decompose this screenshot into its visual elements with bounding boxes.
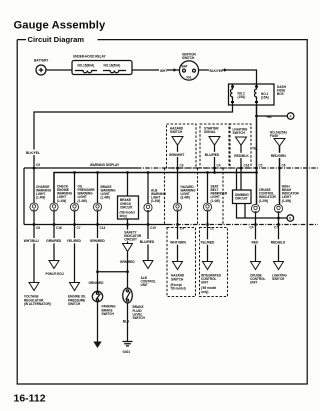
wire check engine lamp to ECU <box>53 211 55 260</box>
node bus tap oil lamp <box>73 171 76 174</box>
svg-text:SWITCH: SWITCH <box>133 316 146 320</box>
svg-text:PGM-FI ECU: PGM-FI ECU <box>46 272 65 276</box>
ignition switch <box>179 53 198 81</box>
node dimming output joint <box>277 217 280 220</box>
ground body <box>93 342 101 349</box>
engine oil pressure switch label <box>68 295 86 306</box>
lighting switch dashed box <box>229 124 251 168</box>
wire label GRN/RED <box>119 259 136 264</box>
svg-text:SWITCH: SWITCH <box>102 312 115 316</box>
svg-text:GRN/RED: GRN/RED <box>46 239 62 243</box>
svg-text:SWITCH: SWITCH <box>171 277 184 281</box>
svg-text:WARNING DISPLAY: WARNING DISPLAY <box>90 163 120 167</box>
wire charge lamp to voltage regulator <box>33 211 35 282</box>
lighting switch label <box>272 274 287 282</box>
svg-text:SIGNAL: SIGNAL <box>204 130 216 134</box>
section divider dashed <box>222 168 224 225</box>
svg-text:SWITCH: SWITCH <box>170 130 183 134</box>
fuse No.2 (15A) <box>231 84 246 105</box>
brake fluid level switch <box>123 288 146 320</box>
wire RED/BLK lighting switch to dimming circuit <box>240 145 242 190</box>
pin mark top edge x=214.5 <box>213 167 215 169</box>
brake check circuit box <box>118 196 139 219</box>
svg-text:BAT: BAT <box>182 65 188 69</box>
wire fuse No.2 to BLK/YEL feed <box>34 105 233 168</box>
pin mark top edge x=256.5 <box>255 167 257 169</box>
wire BLK/YEL to dash fuse box <box>222 70 257 84</box>
connector arrow safety indicator circuit <box>123 244 133 252</box>
svg-text:UNIT: UNIT <box>141 283 148 287</box>
svg-text:C9: C9 <box>36 163 40 167</box>
svg-text:(1.4W): (1.4W) <box>282 199 291 203</box>
svg-text:C3: C3 <box>180 164 184 168</box>
svg-text:IG1: IG1 <box>187 76 192 80</box>
wire brake lamp to parking brake switch <box>97 211 99 291</box>
integrated control unit label <box>201 274 222 294</box>
svg-text:(1.4W): (1.4W) <box>78 199 87 203</box>
svg-text:GRN/RED: GRN/RED <box>90 239 106 243</box>
hazard switch label <box>171 274 186 291</box>
wire label GRN/RED <box>46 238 63 243</box>
svg-text:RED: RED <box>252 241 260 245</box>
integrated control unit lower dashed box <box>200 228 228 297</box>
battery <box>34 59 49 76</box>
svg-text:(1.4W): (1.4W) <box>36 196 45 200</box>
hazard switch dashed box <box>167 124 197 168</box>
wire label RED/BLU <box>270 239 287 244</box>
wire label WHT/BLU <box>23 238 40 243</box>
connector arrow to lighting switch <box>274 262 284 270</box>
connector arrow from starter signal <box>209 137 220 146</box>
svg-text:(1.4W): (1.4W) <box>57 199 66 203</box>
under-hood relay box <box>72 55 132 75</box>
svg-text:Circuit Diagram: Circuit Diagram <box>28 35 85 44</box>
gauge assembly box top edge <box>24 167 137 169</box>
pin mark bottom edge x=207.5 <box>206 223 208 225</box>
oil pressure warning light L3 <box>70 184 94 211</box>
svg-text:BLU/RED: BLU/RED <box>140 240 155 244</box>
connector B <box>287 215 294 222</box>
dash fuse box <box>229 84 287 105</box>
fuse No.1 (15A) <box>255 84 269 105</box>
svg-text:C16: C16 <box>56 226 62 230</box>
svg-text:C16: C16 <box>244 164 250 168</box>
fuse No.15 (80A) <box>75 71 97 73</box>
svg-text:CIRCUIT: CIRCUIT <box>124 238 137 242</box>
svg-text:WHT/GRN: WHT/GRN <box>170 241 186 245</box>
wire WHT to ignition switch <box>167 69 179 71</box>
svg-text:UNDER-HOOD RELAY: UNDER-HOOD RELAY <box>73 55 106 59</box>
ignition bus wire <box>54 173 257 204</box>
node brake fluid branch junction <box>126 270 129 273</box>
wire brake check circuit feed <box>127 173 129 197</box>
node junction YEL tap <box>255 115 258 118</box>
wire fuse No.1 down to YEL node <box>256 105 258 116</box>
svg-text:NO.16(50A): NO.16(50A) <box>104 64 121 68</box>
svg-text:BOX: BOX <box>277 92 285 96</box>
svg-text:C2: C2 <box>259 164 263 168</box>
svg-text:WHT: WHT <box>160 69 167 73</box>
parking brake switch <box>92 291 116 316</box>
svg-text:SWITCH: SWITCH <box>68 302 81 306</box>
wire YEL to connector A <box>257 115 288 117</box>
wire seat belt lamp to integrated control unit <box>207 211 209 261</box>
wire battery to under-hood relay box <box>46 69 72 71</box>
node bus tap brake check circuit <box>126 171 129 174</box>
wire cruise lamp to cruise control unit <box>255 213 257 262</box>
wire oil lamp to oil pressure switch <box>74 211 76 282</box>
svg-text:SWITCH: SWITCH <box>182 56 195 60</box>
wire label YEL/RED <box>200 239 216 244</box>
svg-text:BATTERY: BATTERY <box>34 59 49 63</box>
dimming circuit feed stub <box>236 169 238 191</box>
voltage regulator label <box>24 295 51 306</box>
svg-text:RED/GRN: RED/GRN <box>271 154 287 158</box>
wire brake check to safety indicator circuit <box>127 219 129 244</box>
svg-text:(IN ALTERNATOR): (IN ALTERNATOR) <box>24 302 51 306</box>
svg-text:C6: C6 <box>282 164 286 168</box>
svg-text:(15A): (15A) <box>238 95 246 99</box>
high beam indicator light L9 <box>274 184 299 212</box>
wire label RED <box>251 239 260 244</box>
svg-text:C4: C4 <box>250 226 254 230</box>
wire ignition to BLK/YEL <box>199 69 209 71</box>
wire label GRN/RED <box>89 238 106 243</box>
svg-text:16-112: 16-112 <box>14 393 46 405</box>
pin mark bottom edge x=255.5 <box>254 223 256 225</box>
svg-text:only): only) <box>120 214 127 218</box>
ALB warning light L5 <box>144 188 167 211</box>
wire brake lamp feed <box>97 173 99 204</box>
node bus tap ALB lamp <box>147 171 150 174</box>
connector arrow to cruise control unit <box>251 262 261 270</box>
svg-text:BLK: BLK <box>123 320 130 324</box>
wire charge lamp feed <box>33 167 35 203</box>
connector arrow to hazard switch <box>173 262 183 270</box>
wire label BLK/YEL <box>26 150 43 156</box>
dimming circuit box <box>233 190 252 204</box>
svg-text:C14: C14 <box>100 226 106 230</box>
svg-text:C4: C4 <box>217 164 221 168</box>
wire high beam lamp to lighting switch <box>278 213 280 262</box>
svg-text:G401: G401 <box>123 350 131 354</box>
starter signal dashed box <box>200 124 230 168</box>
ground G401 <box>123 342 133 354</box>
svg-text:only): only) <box>201 290 208 294</box>
svg-text:C7: C7 <box>274 226 278 230</box>
hazard warning light L6 <box>173 185 196 211</box>
ALB control unit label <box>141 276 156 287</box>
svg-text:YEL: YEL <box>266 115 272 119</box>
wire hazard lamp to hazard switch <box>177 211 179 261</box>
cruise control indicator L8 <box>251 188 276 213</box>
svg-text:GRN/WHT: GRN/WHT <box>169 153 185 157</box>
svg-text:YEL/RED: YEL/RED <box>67 239 82 243</box>
svg-text:(1.2W): (1.2W) <box>259 199 268 203</box>
connector arrow to integrated control unit <box>203 262 213 270</box>
pin mark top edge x=241 <box>240 167 242 169</box>
svg-text:GRN/RED: GRN/RED <box>89 281 105 285</box>
wire ALB lamp to ALB control unit <box>147 212 149 261</box>
svg-text:C15: C15 <box>150 226 156 230</box>
wire brake fluid switch to ground G401 <box>127 303 129 342</box>
check engine warning light L2 <box>50 184 73 211</box>
svg-text:Gauge Assembly: Gauge Assembly <box>14 20 106 32</box>
connector arrow to ALB control unit <box>143 261 153 269</box>
connector arrow from No.24 fuse <box>274 139 285 147</box>
svg-text:BLK/YEL: BLK/YEL <box>26 151 40 155</box>
connector arrow from hazard switch <box>172 137 183 146</box>
wire parking brake switch to ground <box>97 302 99 342</box>
svg-text:C8: C8 <box>36 226 40 230</box>
pin mark bottom edge x=127.5 <box>126 223 128 225</box>
svg-text:UNIT: UNIT <box>201 281 208 285</box>
svg-text:SWITCH: SWITCH <box>233 131 246 135</box>
svg-text:C2: C2 <box>210 227 214 231</box>
brake warning light L4 <box>93 185 116 211</box>
node bus joint starter signal <box>213 171 216 174</box>
node bus joint YEL <box>255 171 258 174</box>
svg-text:BLU/RED: BLU/RED <box>205 153 220 157</box>
svg-text:RED/BLK: RED/BLK <box>234 154 249 158</box>
node bus tap brake lamp <box>96 171 99 174</box>
wires dimming circuit output <box>237 204 288 219</box>
svg-text:(1.4W): (1.4W) <box>211 199 220 203</box>
svg-text:(3.4W): (3.4W) <box>181 196 190 200</box>
wire BLU/RED starter signal <box>214 145 216 172</box>
wire junction to brake fluid branch <box>98 271 128 273</box>
svg-text:'89 model): '89 model) <box>171 287 186 291</box>
pin mark bottom edge x=34 <box>33 223 35 225</box>
pin mark bottom edge x=97.5 <box>96 223 98 225</box>
svg-text:CIRCUIT: CIRCUIT <box>120 205 133 209</box>
svg-text:C4: C4 <box>180 227 184 231</box>
hazard switch lower dashed box <box>167 228 196 297</box>
section divider dashed <box>197 168 199 225</box>
connector arrow to voltage regulator <box>29 283 39 291</box>
svg-text:SWITCH: SWITCH <box>272 277 285 281</box>
wire YEL fuse No.1 down to cruise lamp <box>256 116 258 204</box>
pin mark top edge x=177.5 <box>176 167 178 169</box>
svg-text:WHT/BLU: WHT/BLU <box>24 239 40 243</box>
wire GRN/WHT hazard to lamp <box>177 145 179 203</box>
svg-text:FUSE: FUSE <box>270 134 278 138</box>
connector A <box>287 113 294 120</box>
pin mark top edge x=279.5 <box>278 167 280 169</box>
charge warning light L1 <box>30 185 52 211</box>
seat belt reminder light L7 <box>203 184 227 211</box>
wire relay box to WHT <box>132 69 159 71</box>
svg-text:(1.4W): (1.4W) <box>151 199 160 203</box>
wire to brake fluid level switch <box>127 252 129 289</box>
pin mark bottom edge x=74.5 <box>73 223 75 225</box>
safety indicator circuit label <box>124 230 142 242</box>
section divider dashed <box>164 168 166 225</box>
svg-text:C7: C7 <box>77 226 81 230</box>
svg-text:(1.4W): (1.4W) <box>101 196 110 200</box>
node brake circuit junction <box>96 270 99 273</box>
svg-text:NO.15(80A): NO.15(80A) <box>78 64 95 68</box>
gauge assembly box left edge <box>23 168 25 225</box>
wire label WHT/GRN <box>170 239 187 244</box>
wire ALB lamp feed <box>147 173 149 204</box>
fuse No.24 (25A) label <box>270 131 287 139</box>
pin mark top edge x=34 <box>33 167 35 169</box>
svg-text:BLK/YEL: BLK/YEL <box>210 69 223 73</box>
fuse No.16 (50A) <box>103 71 126 73</box>
pin mark bottom edge x=148 <box>147 223 149 225</box>
gauge assembly box bottom edge <box>24 224 168 226</box>
wire seat belt lamp feed <box>207 173 209 204</box>
connector arrow from lighting switch <box>236 137 247 145</box>
svg-text:RED/BLU: RED/BLU <box>271 241 286 245</box>
pin mark bottom edge x=278.5 <box>277 223 279 225</box>
cruise control unit label <box>250 274 265 285</box>
wire label BLU/RED <box>139 239 156 244</box>
circuit diagram border frame <box>17 40 307 384</box>
pin mark bottom edge x=54 <box>53 223 55 225</box>
svg-text:YEL/RED: YEL/RED <box>200 241 215 245</box>
wire label YEL/RED <box>66 238 82 243</box>
svg-text:(15A): (15A) <box>261 96 269 100</box>
pin mark bottom edge x=177.5 <box>176 223 178 225</box>
svg-text:UNIT: UNIT <box>250 281 257 285</box>
svg-text:CIRCUIT: CIRCUIT <box>235 196 248 200</box>
wire oil lamp feed <box>74 173 76 204</box>
node bus tap seat belt lamp <box>206 171 209 174</box>
connector arrow to PGM-FI ECU <box>49 261 59 269</box>
connector arrow to oil pressure switch <box>70 283 80 291</box>
wire RED/GRN fuse No.24 to high beam lamp <box>279 146 281 205</box>
